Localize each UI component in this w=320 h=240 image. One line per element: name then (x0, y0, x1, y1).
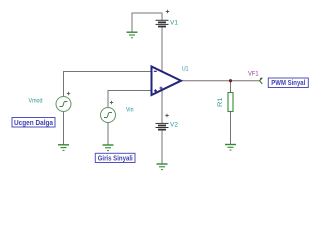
svg-text:PWM Sinyal: PWM Sinyal (271, 80, 305, 87)
svg-text:U1: U1 (182, 66, 189, 73)
svg-text:VF1: VF1 (248, 71, 259, 78)
svg-text:Giris Sinyali: Giris Sinyali (98, 155, 133, 162)
svg-text:Ucgen Dalga: Ucgen Dalga (14, 120, 53, 127)
svg-text:R1: R1 (217, 97, 224, 107)
svg-text:Vmod: Vmod (29, 97, 43, 104)
svg-text:V2: V2 (170, 122, 178, 129)
svg-text:V1: V1 (170, 20, 178, 27)
svg-text:Vin: Vin (126, 107, 134, 114)
